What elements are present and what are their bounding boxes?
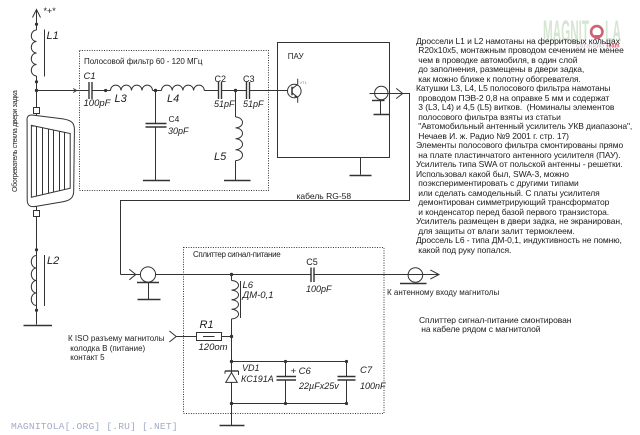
svg-text:VT1: VT1 <box>300 80 308 85</box>
